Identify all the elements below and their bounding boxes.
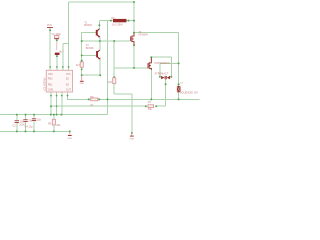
wire R3 bottom link [81, 67, 83, 75]
wire top rail [69, 1, 134, 3]
wire R4 bottom pin [113, 84, 115, 95]
wire ground row to T2 emitter [82, 74, 101, 76]
wire T1 collector riser [98, 21, 100, 30]
VCC supply bar [47, 26, 53, 29]
svg-text:FDN304: FDN304 [139, 33, 149, 36]
junction dot rail A C3 [16, 114, 18, 116]
junction dot top right corner [133, 1, 135, 3]
wire TVS left pin up [159, 63, 161, 76]
wire TVS right pin up [170, 57, 172, 76]
ground symbol GND4 rail B [68, 131, 73, 140]
junction dot solenoid top [178, 83, 180, 85]
junction dot R2 left pin [110, 20, 112, 22]
capacitor C4 plates [23, 119, 27, 122]
wire H3 top right [134, 32, 179, 34]
junction dot VCC pin [49, 29, 51, 31]
wire R4 top pin [113, 68, 115, 78]
ground symbol GND2 pulldown [130, 133, 135, 140]
wire TVS center tap down [165, 79, 167, 106]
junction dot VL at R1 [107, 98, 109, 100]
junction dot rail B C4 [25, 130, 27, 132]
junction dot T5 source at R1 [150, 98, 152, 100]
junction dot H5 at V4 [81, 40, 83, 42]
wire emitter node row H5 [82, 40, 131, 42]
MOSFET T5 [148, 58, 151, 70]
svg-text:GND: GND [80, 83, 85, 85]
junction dot R7 left [145, 105, 147, 107]
junction dot rail A pin2 [56, 114, 58, 116]
IC1 box [46, 70, 72, 92]
wire VCC jog to IC pin3 top [63, 43, 69, 45]
svg-text:GND: GND [68, 138, 73, 140]
svg-text:GND: GND [48, 89, 53, 91]
svg-text:22p: 22p [28, 120, 33, 123]
junction dot R2 row at V134 [133, 20, 135, 22]
junction dot rail A pin1 [50, 114, 52, 116]
svg-text:4k7: 4k7 [76, 64, 81, 67]
component D6 filled bar [55, 53, 60, 55]
svg-text:OSC: OSC [48, 74, 53, 76]
svg-text:VCC: VCC [47, 24, 52, 27]
wire VCC stub down to IC pin1 top [49, 28, 51, 67]
junction dot Rs right [98, 98, 100, 100]
junction dot rail B C5 [33, 130, 35, 132]
svg-text:XTREMACT: XTREMACT [155, 73, 169, 76]
junction dot M1 source at T5 gate wire [133, 67, 135, 69]
junction dot R2 right pin [128, 20, 130, 22]
junction dot Rs left [88, 98, 90, 100]
wire VR vertical to T5 gate [113, 41, 115, 68]
svg-text:BC546: BC546 [84, 24, 92, 27]
TVS diode pair [161, 76, 170, 79]
svg-text:VCC: VCC [66, 74, 71, 76]
junction dot rail A C5 [33, 114, 35, 116]
svg-text:BC546: BC546 [86, 47, 94, 50]
junction dot rail B R5 [53, 130, 55, 132]
junction dot H5 T1e T2c [99, 40, 101, 42]
component D6 faint stem [56, 41, 58, 50]
resistor R4 outline [113, 78, 116, 84]
junction dots IC top pin tips [49, 66, 51, 68]
resistor R7 series outline [148, 105, 154, 108]
svg-text:POPWRMOS: POPWRMOS [155, 62, 170, 65]
solenoid body [177, 86, 181, 92]
wire rail B [0, 130, 70, 132]
resistor Rs series outline [91, 98, 98, 101]
junction dot R4 top [113, 76, 115, 78]
wire C5 pins [33, 115, 35, 119]
svg-text:IC1 ATTINY: IC1 ATTINY [43, 77, 46, 90]
junction dot rail A C4 [25, 114, 27, 116]
junction dot solenoid bottom [178, 98, 180, 100]
junction dot V178 at H8 [178, 62, 180, 64]
junction dot TVS tap [165, 83, 167, 85]
junction dot ground row T2 emitter [99, 74, 101, 76]
wire pulldown vertical to ground [131, 94, 133, 133]
transistor T2 [96, 50, 100, 60]
svg-text:OUT: OUT [66, 89, 71, 91]
junction dot TVS left pin [159, 76, 161, 78]
IC top pin stubs [49, 67, 51, 70]
wire T5 drain pin [150, 57, 152, 63]
junction dot rail A R5 [53, 114, 55, 116]
wire T1 base horizontal [82, 32, 97, 34]
component C6 body [54, 36, 59, 39]
wire base bus vertical V4 [81, 33, 83, 62]
wire T2 base horizontal [82, 54, 97, 56]
junction dot D6 bottom [56, 55, 58, 57]
wire IC pin1 bottom to rail A [50, 96, 52, 115]
junction dot T5 drain [150, 56, 152, 58]
junction dot T1 collector pin tip [98, 24, 100, 26]
junction dot R3 bottom pin [81, 68, 83, 70]
junction dot rail A pin3 [60, 114, 62, 116]
capacitor C5 plates [32, 118, 36, 121]
resistor R2 (filled body) [113, 19, 127, 22]
transistor T1 [96, 28, 100, 37]
junction dot R3 top pin [81, 60, 83, 62]
junction dot H5 at VR [113, 40, 115, 42]
svg-text:C4 22p: C4 22p [25, 126, 34, 129]
capacitor C3 plates [15, 120, 19, 123]
svg-text:22p: 22p [37, 118, 42, 121]
wire resistor R2 row [99, 20, 134, 22]
junction dot IC pin1 at R2 [50, 105, 52, 107]
wire T5 source down to R1 [150, 68, 152, 99]
svg-text:C2 100n: C2 100n [52, 33, 62, 36]
wire IC pin3 bottom to rail A [61, 96, 63, 115]
svg-text:SOLENOID 12V: SOLENOID 12V [180, 92, 198, 95]
wire VL long vertical [107, 21, 109, 115]
junction dot M1 drain [133, 32, 135, 34]
wire R5 pins [53, 115, 55, 120]
wire rail A [0, 114, 108, 116]
resistor R5 outline [52, 119, 55, 125]
wire T2 collector pin up [99, 41, 101, 51]
junction dot rail B end [69, 130, 71, 132]
junction dot TVS right pin [170, 76, 172, 78]
wire C3 pins [16, 115, 18, 121]
wire C4 pins [25, 115, 27, 120]
wire IC pin8 corner and rail R1 [68, 96, 200, 100]
wire M1 source vertical [133, 45, 135, 68]
wire TVS left to V178 [160, 62, 179, 64]
wire T2 emitter down [99, 59, 101, 76]
ground symbol GND1 [80, 75, 85, 84]
svg-text:PB1: PB1 [48, 85, 53, 87]
svg-text:GND: GND [130, 139, 135, 141]
wire tap corner to R7 [156, 105, 165, 107]
junction dot R7 right [155, 105, 157, 107]
junction dot ground row V4 [81, 74, 83, 76]
wire VCC rail V1 left vertical [68, 2, 70, 67]
svg-text:PB0: PB0 [48, 79, 53, 81]
IC bottom pin stubs [50, 92, 52, 96]
wire right vertical V178 [178, 33, 180, 87]
wire C6 D6 column to IC pin2 top [56, 56, 58, 67]
resistor R3 outline [80, 62, 83, 67]
wire T5 drain horizontal [151, 56, 171, 58]
junction dot C6 bottom [56, 39, 58, 41]
junction dot V4 T2 base [81, 54, 83, 56]
svg-text:1k 0.25W: 1k 0.25W [112, 24, 123, 27]
wire T5 gate horizontal [114, 67, 148, 69]
wire IC pin2 bottom to rail A [56, 96, 58, 115]
wire solenoid bottom pin [178, 92, 180, 99]
wire T1 emitter pin down [99, 37, 101, 41]
wire right vertical top rail to M1 drain [133, 2, 135, 33]
junction dot rail B C3 [16, 130, 18, 132]
svg-text:4u7: 4u7 [59, 51, 64, 54]
junction dot M1 source tip [133, 44, 135, 46]
junction dot pulldown gnd end [131, 132, 133, 134]
MOSFET M1 [131, 33, 134, 45]
wire rail R2 [51, 105, 146, 107]
IC1 pin names [48, 74, 71, 92]
wire R4 bottom horizontal [114, 93, 132, 95]
junction dots IC bottom pin tips [50, 95, 52, 97]
junction dot IC pin2 at R2 [56, 105, 58, 107]
